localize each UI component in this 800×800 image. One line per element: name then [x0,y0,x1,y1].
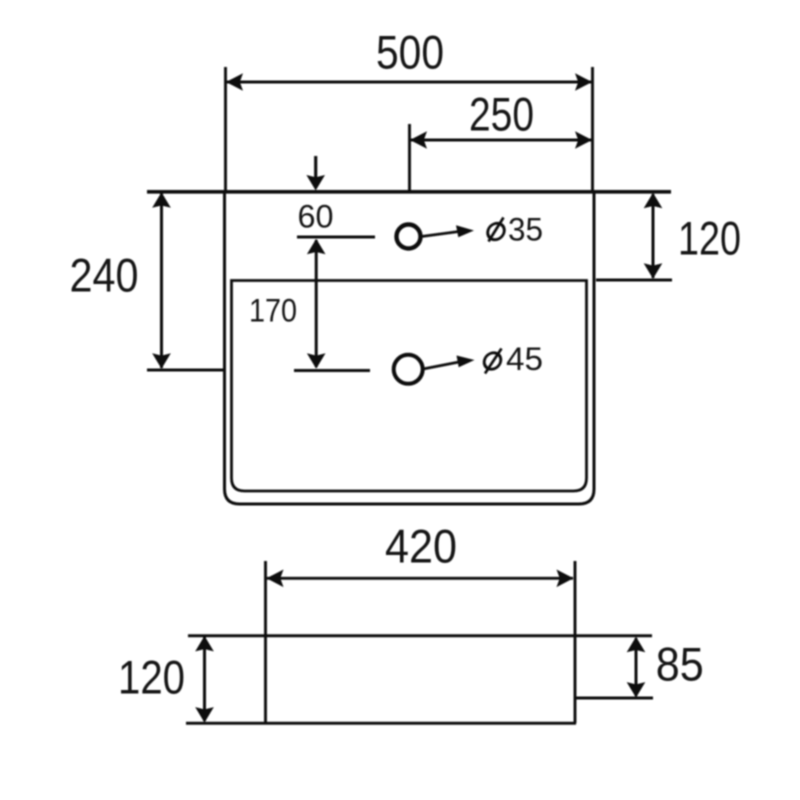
label ø35 [487,212,543,248]
drain hole ø45 [394,355,423,384]
dimension 120 (plan): bottom extension line [596,279,672,282]
dimension 250: dimension line [411,139,591,142]
dimension 60: upper arrow pointing down to rim [314,156,317,182]
dimension 500: dimension line [227,81,591,84]
dimension 500: extension line left [224,67,227,191]
elevation: step extension line for 85 [575,697,653,700]
dimension 240: bottom extension line [147,369,225,372]
dimension 420: left arrowhead [267,570,284,588]
svg-text:250: 250 [469,88,534,141]
outer rim of basin (plan view, rounded bottom corners) [225,192,595,504]
inner bowl of basin (plan view, rounded bottom corners) [232,281,587,492]
dimension 240: bottom arrowhead [152,353,171,369]
dimension 120 (plan): top arrowhead [644,193,663,209]
elevation: top edge line [188,634,652,637]
svg-text:35: 35 [508,212,543,248]
dimension 85: dimension line [635,638,638,696]
svg-text:85: 85 [656,638,704,691]
dimension 85: bottom arrowhead [627,682,646,698]
elevation: right side (also 420 extension) [574,561,577,723]
dimension 85: top arrowhead [627,637,646,653]
dimension 120 (elevation): dimension line [203,637,206,721]
dimension 240: top arrowhead [152,192,171,208]
dimension 120 (plan): dimension line [652,194,655,278]
dimension 60/170: arrow pointing up to centre line [307,239,326,255]
svg-text:120: 120 [678,212,741,265]
dimension 120 (elevation): top arrowhead [195,636,214,652]
dimension 250: left arrowhead [410,131,427,149]
dimension 420: dimension line [267,577,573,580]
svg-text:420: 420 [385,520,457,573]
top edge line of basin plan (also extension for 240 and 120 dims) [147,190,671,194]
dimension 240: dimension line [160,193,163,368]
svg-text:60: 60 [298,199,334,235]
dimension 120 (elevation): bottom arrowhead [195,707,214,723]
elevation: bottom edge line [186,722,576,725]
svg-text:500: 500 [376,26,444,79]
dimension 170: arrow pointing down to drain centre line [307,353,326,369]
hole ø45 centre line [294,369,370,372]
svg-text:170: 170 [249,293,297,329]
hole ø35 centre line [297,236,375,239]
dimension 250: extension line at hole centre [408,124,411,191]
dimension 500: left arrowhead [226,73,243,91]
label ø45 [483,341,543,377]
dimension 500: extension line right [591,67,594,191]
dimension 170: dimension line [315,240,318,367]
svg-text:240: 240 [70,249,139,302]
elevation: left side (also 420 extension) [264,561,267,723]
dimension 250: right arrowhead [575,131,592,149]
svg-text:120: 120 [118,651,185,704]
leader arrow for ø35 [422,225,475,237]
svg-text:45: 45 [506,341,543,377]
dimension 420: right arrowhead [557,570,574,588]
dimension 500: right arrowhead [575,73,592,91]
leader arrow for ø45 [423,356,475,370]
faucet hole ø35 [397,225,421,249]
dimension 120 (plan): bottom arrowhead [644,263,663,279]
